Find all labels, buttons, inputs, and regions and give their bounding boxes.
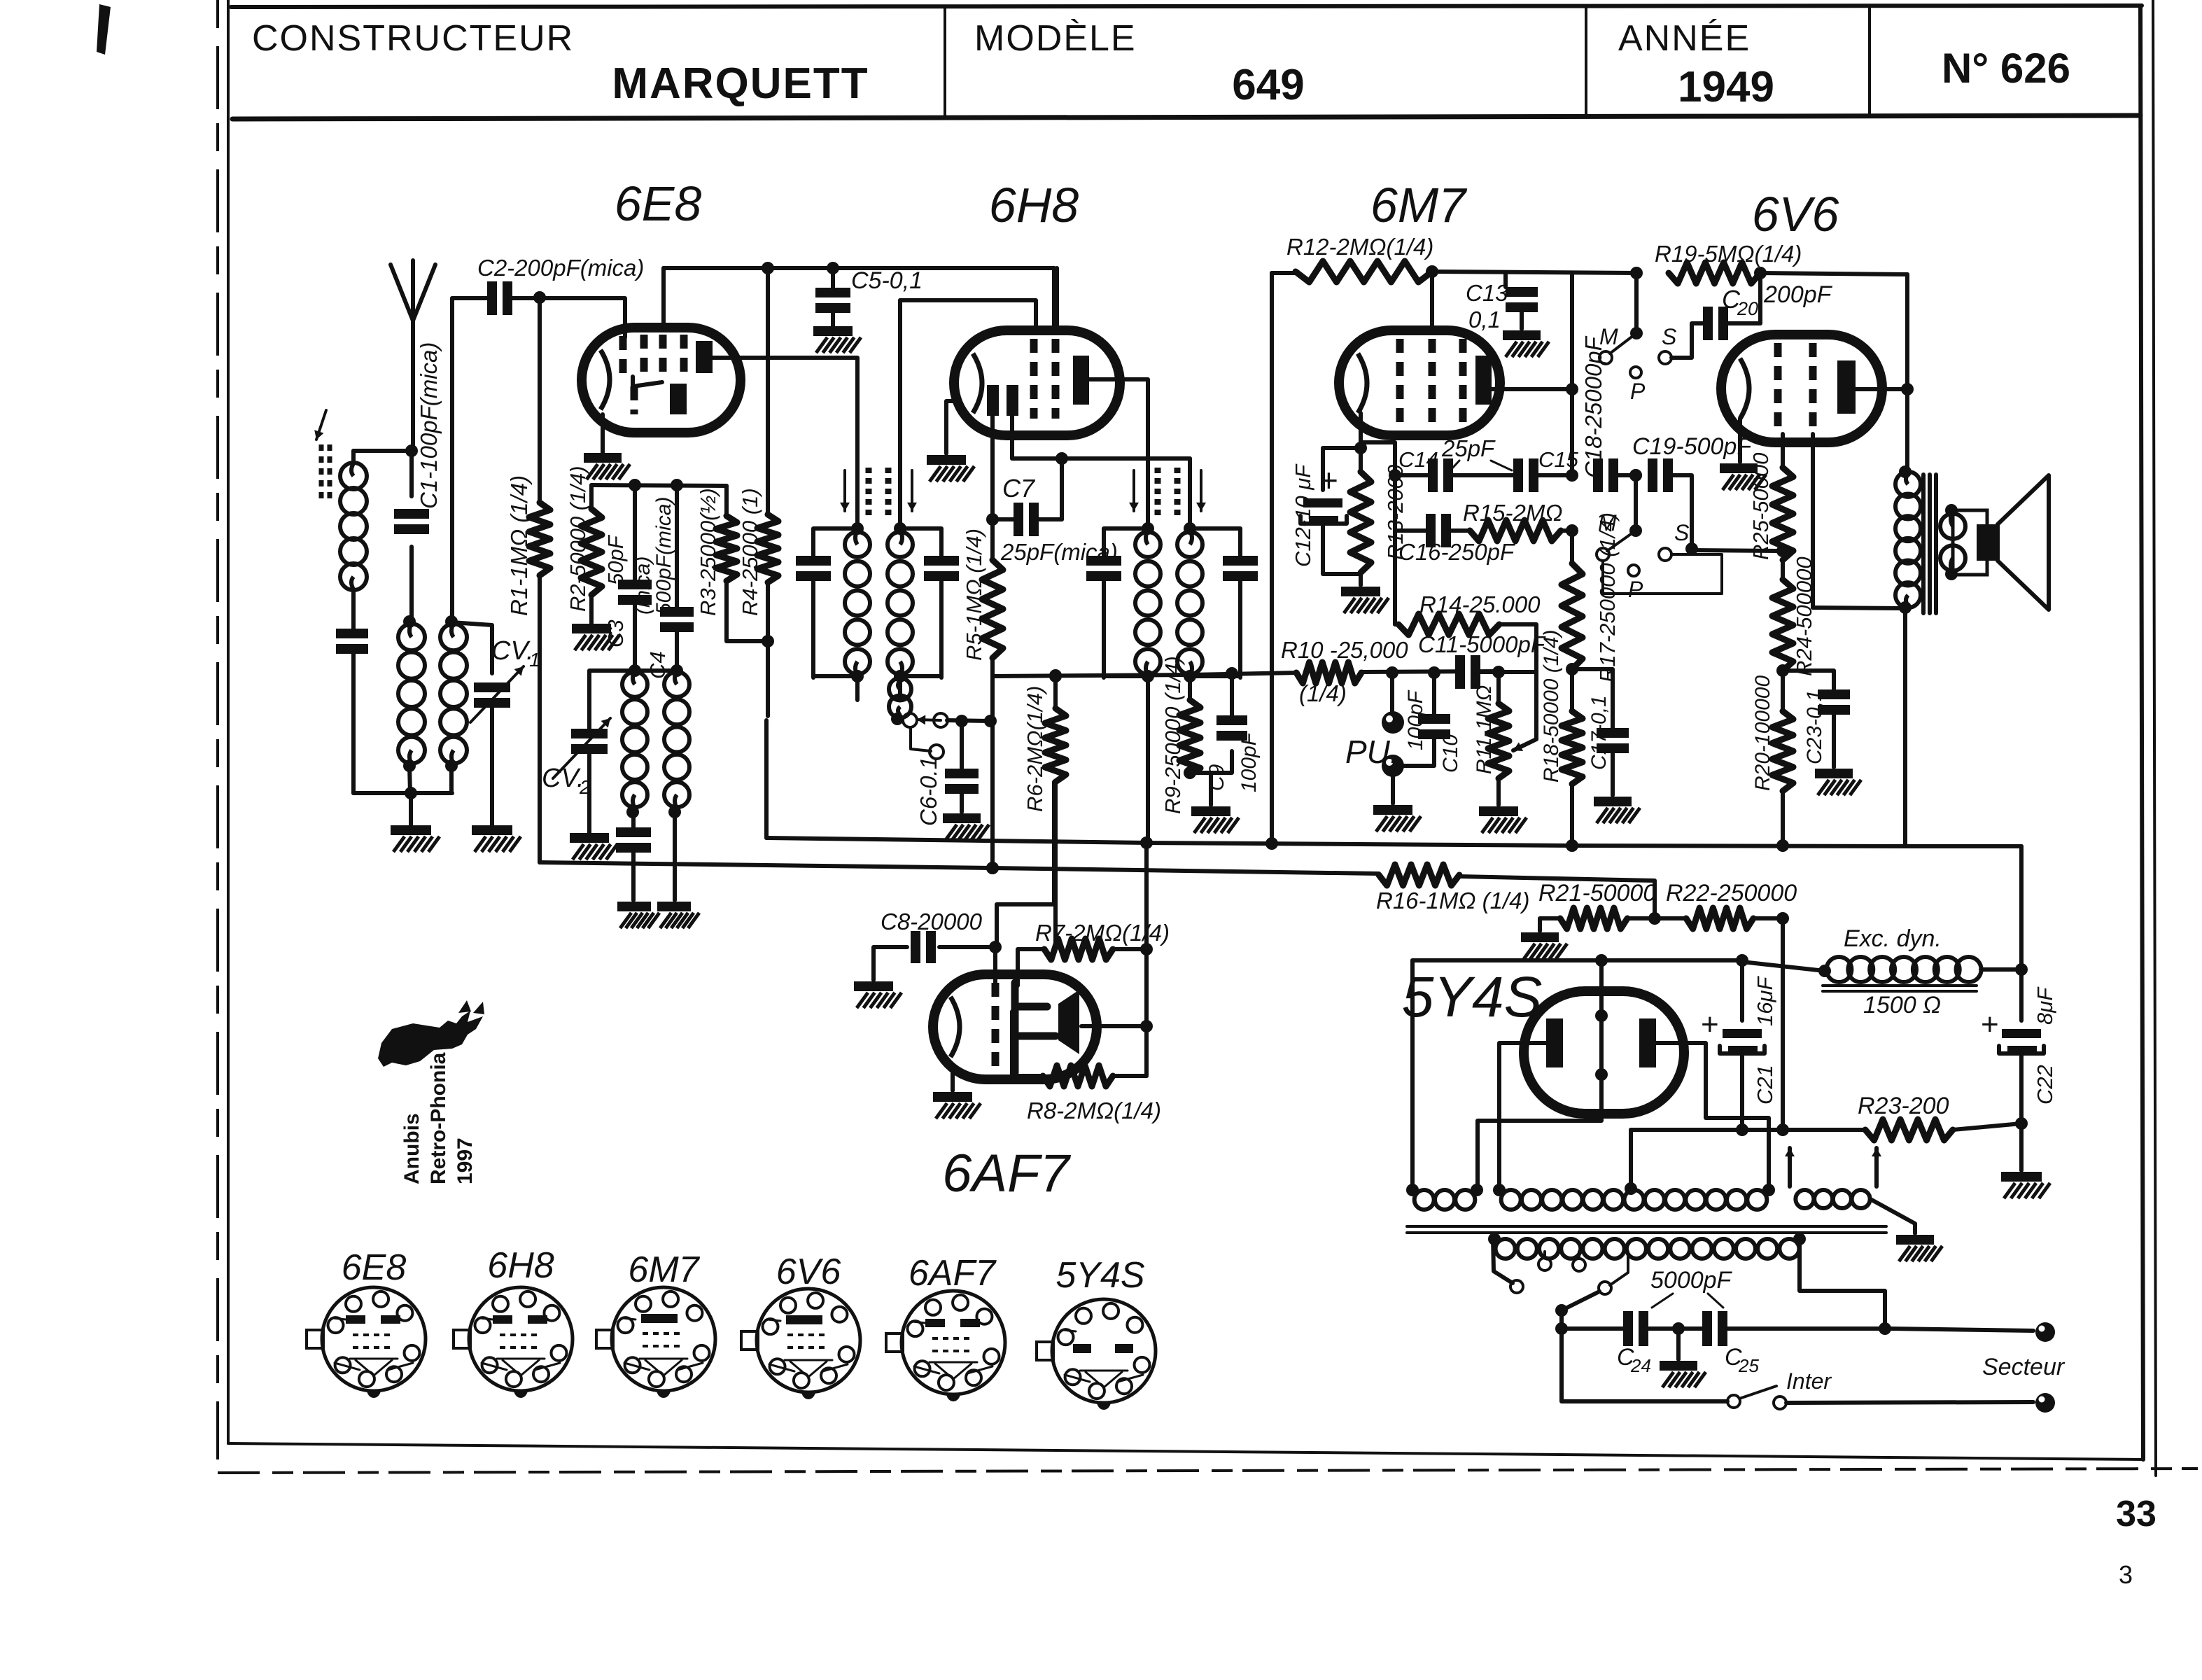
socket 6V6 [757, 1289, 860, 1392]
capacitor C1 [394, 519, 429, 524]
svg-text:C9: C9 [1205, 764, 1228, 791]
svg-text:R21-50000: R21-50000 [1538, 880, 1656, 906]
rail B [1432, 272, 1636, 273]
capacitor C2 [497, 281, 503, 315]
capacitor C23 [1818, 699, 1850, 705]
svg-text:Exc. dyn.: Exc. dyn. [1844, 925, 1942, 952]
rail A top [664, 266, 1054, 270]
wire IF2 pri down to bus [1146, 676, 1150, 843]
svg-text:R22-250000: R22-250000 [1666, 880, 1797, 906]
svg-text:+: + [1701, 1007, 1719, 1042]
capacitor C24 [1633, 1311, 1639, 1346]
node osc left bottom [626, 806, 639, 818]
capacitor C13 [1506, 297, 1538, 302]
wire IF1 sec cap down [939, 581, 944, 678]
header divider N626 [1868, 7, 1871, 117]
label P upper [1630, 367, 1641, 378]
svg-text:25: 25 [1738, 1355, 1759, 1376]
wire C19 right [1670, 475, 1692, 549]
wire IF1 pri bottom [813, 674, 857, 678]
svg-text:1997: 1997 [454, 1137, 477, 1184]
switch box lower [1603, 554, 1722, 594]
svg-text:R19-5MΩ(1/4): R19-5MΩ(1/4) [1655, 241, 1802, 267]
wire fil riser [1599, 960, 1604, 1002]
wire C24 left edge [1562, 1329, 1727, 1401]
grid dashes 6H8 a [1030, 339, 1038, 419]
resistor R1 [529, 503, 550, 575]
cathode lead 6AF7 [951, 1072, 955, 1091]
ink blob artifact [97, 4, 111, 55]
node C8 grid [989, 941, 1002, 953]
inductor IF1 secondary [888, 532, 913, 557]
node HT tap b [1493, 1184, 1506, 1196]
node C2 junction [533, 291, 546, 304]
ground G23 C24 C25 [1660, 1361, 1697, 1371]
svg-text:R12-2MΩ(1/4): R12-2MΩ(1/4) [1286, 234, 1433, 260]
inductor tuning left [398, 624, 425, 650]
capacitor osc padding [631, 812, 636, 827]
jack PU top [1382, 711, 1404, 734]
svg-text:R5-1MΩ (1/4): R5-1MΩ (1/4) [962, 528, 986, 661]
svg-text:R15-2MΩ: R15-2MΩ [1463, 500, 1562, 526]
wiper arrow R11 [1513, 739, 1536, 750]
resistor R23 [1865, 1119, 1953, 1140]
svg-text:C11-5000pF: C11-5000pF [1418, 631, 1546, 657]
node 6V6 plate [1901, 383, 1914, 395]
node tun coil left bottom [403, 759, 416, 772]
wire secteur bottom [1786, 1402, 2033, 1403]
node osc right top [671, 664, 683, 677]
wire C24 row [1562, 1326, 1890, 1331]
top page border [231, 6, 2142, 7]
switch S upper [1659, 351, 1671, 364]
wire bus upper left riser [764, 720, 769, 838]
triode grid step 6E8 [633, 377, 662, 386]
wire CV2 top link [589, 671, 677, 731]
node x2246 y679 [1566, 469, 1578, 482]
socket 5Y4S [1052, 1299, 1156, 1403]
header divider ANNEE [1585, 7, 1587, 117]
node det C10 [1428, 666, 1440, 679]
inductor heater wind [1795, 1190, 1814, 1208]
wire HT left riser [1410, 960, 1415, 1189]
wire C4 column top [675, 485, 679, 608]
svg-text:3: 3 [2119, 1560, 2133, 1589]
node 6AF7 col bus [1140, 836, 1153, 849]
svg-text:16μF: 16μF [1753, 976, 1777, 1026]
wire R8 right [1113, 1074, 1146, 1078]
grid dashes 6E8 d [680, 335, 688, 381]
node det C9 [1226, 667, 1238, 680]
svg-text:(mica): (mica) [631, 556, 654, 615]
ground G18 C17 [1594, 797, 1632, 806]
ground G17 C13 [1503, 330, 1541, 340]
ground G15 R11 [1479, 806, 1518, 816]
wire IF2 sec cap down [1238, 581, 1242, 678]
node exc right [2015, 963, 2028, 976]
wire R2 top [589, 485, 594, 509]
ground G12 C8 [854, 981, 893, 991]
svg-text:+: + [1981, 1007, 1999, 1042]
wire C4 column bottom [675, 632, 679, 671]
OT core [1921, 475, 1926, 613]
resistor R9 [1179, 700, 1200, 776]
node IF2 sec bottom [1184, 670, 1196, 682]
node R24 bottom [1776, 664, 1789, 677]
cathode lead 6M7 [1359, 413, 1363, 472]
svg-text:R3-25000(½): R3-25000(½) [696, 488, 720, 616]
resistor R2 [581, 509, 602, 595]
speaker frame [1953, 510, 1987, 575]
svg-text:R20-100000: R20-100000 [1751, 675, 1774, 791]
wire S to C20 [1671, 323, 1706, 358]
grid dashes 6M7 b [1429, 339, 1436, 427]
wire AVC riser [1272, 271, 1298, 275]
anode lead 6V6 [1856, 387, 1907, 391]
svg-text:5Y4S: 5Y4S [1056, 1255, 1145, 1296]
wire IF2 sec top link [1190, 528, 1240, 556]
wire IF2 pri cap down [1102, 581, 1106, 678]
filament lead down [1478, 1100, 1601, 1186]
wire R7 right [1113, 947, 1146, 951]
wire 6AF7 col [1144, 843, 1149, 1076]
node det C7 branch [1056, 452, 1068, 465]
tube 6E8 [582, 328, 741, 433]
svg-text:R11-1MΩ: R11-1MΩ [1473, 685, 1496, 774]
svg-text:CONSTRUCTEUR: CONSTRUCTEUR [252, 18, 574, 59]
resistor R19 [1669, 262, 1760, 283]
wire R11 top [1496, 672, 1501, 703]
svg-text:C17-0,1: C17-0,1 [1587, 695, 1611, 770]
tube 6V6 [1721, 335, 1882, 442]
wire R24 to C23 [1783, 671, 1834, 689]
ground G13 6AF7 [933, 1092, 972, 1102]
wire C10 bottom [1404, 739, 1434, 766]
wire right coil bottom [449, 766, 454, 793]
diode plate 6H8 a [987, 385, 999, 416]
grid dashes 6AF7 [992, 983, 1000, 1072]
wire R21 R22 link [1627, 916, 1686, 920]
node IF1 sec bottom [894, 670, 906, 682]
capacitor C8 [920, 931, 926, 963]
diode plate 6H8 b [1007, 385, 1018, 416]
wire 6H8 grid link [900, 300, 1036, 332]
svg-text:R1-1MΩ (1/4): R1-1MΩ (1/4) [506, 475, 532, 616]
wire C21 down [1740, 1053, 1744, 1130]
wire C7 branch [1060, 458, 1064, 519]
wire rail B down [1905, 274, 1909, 472]
resistor R17 [1562, 563, 1583, 669]
wire IF1 sec bottom [900, 674, 941, 678]
node R9 bottom [1184, 766, 1196, 779]
node tun coil left top [403, 615, 416, 628]
speaker magnet [1977, 524, 1998, 561]
capacitor C17 [1597, 738, 1629, 743]
capacitor C18cap [1603, 458, 1608, 492]
svg-text:C6-0.1: C6-0.1 [916, 757, 941, 826]
node 6M7 cath [1354, 442, 1367, 454]
wire coil top to CV1 [451, 622, 492, 673]
svg-text:500pF(mica): 500pF(mica) [652, 497, 675, 615]
resistor R13 [1350, 472, 1371, 573]
wire 6M7 grid [1430, 272, 1434, 332]
wire C22 drop [2019, 969, 2024, 1021]
svg-text:C13: C13 [1466, 280, 1508, 306]
IF1 core arrow right [911, 470, 913, 511]
svg-text:C7: C7 [1002, 474, 1036, 503]
svg-text:R7-2MΩ(1/4): R7-2MΩ(1/4) [1035, 920, 1170, 946]
cathode 6M7 [1358, 353, 1367, 413]
wire R8 left [1012, 1011, 1043, 1076]
left page border inner [227, 0, 230, 1443]
svg-text:C1-100pF(mica): C1-100pF(mica) [416, 342, 442, 509]
svg-text:C19-500pF: C19-500pF [1632, 433, 1753, 460]
svg-text:100pF: 100pF [1237, 731, 1261, 792]
node C24 C25 mid [1672, 1322, 1685, 1335]
wire R1 down to bus [538, 575, 542, 862]
wire C8 right [939, 945, 995, 949]
wire R18 to bus [1570, 784, 1574, 846]
anode 6M7 [1475, 356, 1492, 405]
wire IF1 sec top link [900, 528, 941, 556]
ground G5 osc right [657, 902, 691, 911]
svg-text:C3: C3 [603, 619, 628, 647]
wire grid2 line y692 [591, 485, 727, 486]
wire M riser [1634, 273, 1639, 333]
wire ant cap down [351, 654, 356, 793]
ground G10 cathode 6H8 [927, 455, 966, 465]
node OT pri bottom [1899, 601, 1912, 614]
wire C8 left [874, 947, 907, 980]
IF2 core arrow right [1200, 470, 1202, 511]
ground G3 CV2 [570, 833, 609, 843]
grid dashes 6E8 lower [631, 386, 638, 414]
capacitor C16 [1436, 514, 1441, 547]
grid dashes 6E8 b [640, 335, 648, 377]
wire to antenna coil [353, 449, 412, 453]
wire IF2 pri bottom [1104, 674, 1148, 678]
wire PT pri right down [1800, 1238, 1885, 1329]
wire y679 left [1395, 473, 1572, 477]
anode lead 6H8 [1089, 379, 1148, 528]
svg-text:6E8: 6E8 [342, 1247, 407, 1288]
wire heater to ground [1872, 1200, 1915, 1233]
filament line 5Y4S [1599, 1002, 1604, 1100]
wire rail into 6H8 [1052, 268, 1056, 332]
wire antenna down [411, 321, 415, 451]
wire C5 to ground [831, 312, 835, 326]
wire PU bottom down [1391, 777, 1395, 804]
ground G7 cathode 6E8 [584, 453, 622, 463]
svg-text:R8-2MΩ(1/4): R8-2MΩ(1/4) [1027, 1098, 1161, 1123]
wire y1614 [1631, 1128, 1865, 1132]
wire switch row [947, 720, 990, 721]
6AF7 screen wedge [1058, 990, 1079, 1054]
svg-text:C10: C10 [1439, 734, 1462, 773]
socket 6M7 [612, 1287, 715, 1391]
PT tap b [1578, 1252, 1580, 1259]
bus lower [540, 862, 1379, 874]
wire det line y655 [1012, 456, 1190, 461]
inductor OT secondary [1940, 514, 1965, 539]
node y692 C4 [671, 479, 683, 491]
svg-text:6H8: 6H8 [989, 178, 1079, 232]
node C6 junction [984, 715, 997, 727]
wire osc right to ground [673, 812, 677, 900]
wire padding to ground [631, 853, 636, 900]
cathode lead 6E8 [601, 414, 605, 453]
node rail R19 [1754, 267, 1767, 279]
resistor R7 [1044, 939, 1113, 960]
svg-text:20: 20 [1737, 298, 1758, 319]
node C7 left [986, 513, 999, 526]
wire IF2 pri top link [1104, 528, 1148, 556]
wire C11 to R14 [1478, 672, 1536, 739]
node fil top [1595, 954, 1608, 967]
6AF7 electrode F [1011, 983, 1019, 1072]
wire R25 bottom [1781, 560, 1785, 580]
svg-text:S: S [1662, 324, 1676, 349]
wire C13 link [1503, 274, 1508, 287]
node R18 bus [1566, 839, 1578, 852]
svg-text:25pF: 25pF [1441, 435, 1496, 461]
wire CV1 down [490, 708, 494, 825]
svg-text:(1/4): (1/4) [1299, 680, 1347, 706]
wire R5 to bus [990, 658, 995, 868]
tube 5Y4S [1524, 991, 1684, 1114]
svg-text:MODÈLE: MODÈLE [974, 18, 1137, 59]
wire C18 riser [1570, 274, 1574, 475]
wire R23 right link [1953, 1123, 2021, 1130]
wire left coil to link [409, 766, 410, 793]
svg-text:R24-500000: R24-500000 [1792, 556, 1816, 676]
node IF2 pri top [1142, 522, 1154, 535]
resistor R11 [1488, 703, 1509, 778]
ground G24 heater [1896, 1235, 1934, 1245]
wire R14 right [1499, 624, 1536, 672]
node det PU [1386, 666, 1398, 679]
svg-text:P: P [1628, 577, 1643, 602]
capacitor C20 [1713, 307, 1718, 340]
svg-text:33: 33 [2116, 1494, 2157, 1534]
node HT left end [1406, 1184, 1419, 1196]
inductor HT small [1415, 1190, 1434, 1210]
Exc core [1823, 984, 1977, 987]
resistor R22 [1686, 908, 1753, 929]
node rail A x1097 [762, 262, 774, 274]
svg-text:Inter: Inter [1786, 1368, 1832, 1394]
wire screen to OT bottom [1813, 608, 1905, 608]
resistor R12 [1296, 261, 1432, 282]
wire C13 down [1520, 312, 1524, 329]
svg-text:24: 24 [1630, 1355, 1651, 1376]
resistor R3 [716, 516, 737, 581]
cathode lead 6H8 [946, 401, 958, 454]
anode lead 6E8 [713, 358, 857, 526]
switch branch [911, 727, 931, 751]
ground G8 C5 [813, 326, 853, 336]
svg-text:R18-50000 (1/4): R18-50000 (1/4) [1540, 630, 1563, 783]
wire C3 column top [633, 485, 637, 580]
svg-text:Secteur: Secteur [1982, 1354, 2066, 1380]
left page border outer [216, 0, 219, 1459]
svg-text:C5-0,1: C5-0,1 [851, 267, 923, 294]
node M lever top [1630, 327, 1643, 339]
node OT pri top [1899, 465, 1912, 478]
wire C20 right [1725, 273, 1760, 323]
wire C9 top [1230, 673, 1234, 715]
svg-text:200pF: 200pF [1763, 281, 1833, 308]
svg-text:C8-20000: C8-20000 [881, 909, 983, 934]
node R21 R22 [1648, 912, 1661, 925]
wire bus corner right [2019, 846, 2024, 969]
capacitor C19 [1657, 458, 1663, 492]
inductor IF2 secondary [1177, 532, 1202, 557]
terminal secteur top [2035, 1322, 2055, 1342]
capacitor C11 [1465, 655, 1471, 689]
svg-text:C15: C15 [1538, 447, 1579, 472]
wire C2 feed [452, 296, 490, 300]
node y692 C3 [629, 479, 641, 491]
svg-text:M: M [1599, 324, 1618, 349]
wire R15 row [1395, 528, 1471, 533]
node R6 top [1049, 670, 1062, 682]
anode 6V6 [1837, 360, 1856, 414]
node IF1 pri top [851, 522, 864, 535]
switch M lower [1597, 548, 1609, 561]
wire det out [993, 673, 1298, 676]
node R15 right [1566, 524, 1578, 537]
svg-text:R9-250000 (1/4): R9-250000 (1/4) [1160, 656, 1185, 814]
wire R13 C14 link [1393, 475, 1397, 531]
heater arrow b [1874, 1148, 1879, 1186]
rail B right [1760, 273, 1907, 274]
capacitor C12 elco [1303, 498, 1342, 507]
wire PU top riser [1390, 673, 1394, 713]
svg-text:1500 Ω: 1500 Ω [1863, 992, 1941, 1018]
node 6M7 plate [1566, 383, 1578, 395]
wire C17 branch [1572, 669, 1613, 728]
svg-text:C2-200pF(mica): C2-200pF(mica) [477, 255, 644, 281]
wire C23 down [1832, 715, 1836, 767]
resistor R20 [1772, 711, 1793, 791]
right page border outer [2153, 0, 2156, 1476]
IF2 core arrow left [1132, 470, 1135, 511]
terminal secteur bottom [2035, 1393, 2055, 1413]
resistor R15 [1470, 520, 1561, 541]
svg-text:C4: C4 [645, 651, 670, 679]
tube 6AF7 [933, 974, 1097, 1079]
header divider MODELE [944, 7, 946, 117]
node bottom link [405, 787, 417, 799]
capacitor IF1 pri [796, 566, 831, 571]
wire mid ground [1676, 1329, 1681, 1359]
node C19 left [1629, 469, 1642, 482]
node C21 top [1736, 954, 1748, 967]
ground G9 C6 [943, 813, 981, 823]
header bottom rule [232, 115, 2140, 119]
wire C2 to grid corner [510, 298, 625, 337]
grid dashes 6V6 a [1774, 343, 1782, 434]
cathode 6AF7 [951, 997, 960, 1057]
wire 6AF7 grid riser [993, 947, 997, 987]
ground G14 PU [1373, 805, 1412, 815]
svg-text:0,1: 0,1 [1468, 307, 1501, 332]
svg-text:6V6: 6V6 [776, 1252, 841, 1292]
svg-text:R16-1MΩ (1/4): R16-1MΩ (1/4) [1376, 888, 1530, 913]
core arrow antenna [316, 410, 326, 440]
anode lead a [1499, 1043, 1546, 1186]
